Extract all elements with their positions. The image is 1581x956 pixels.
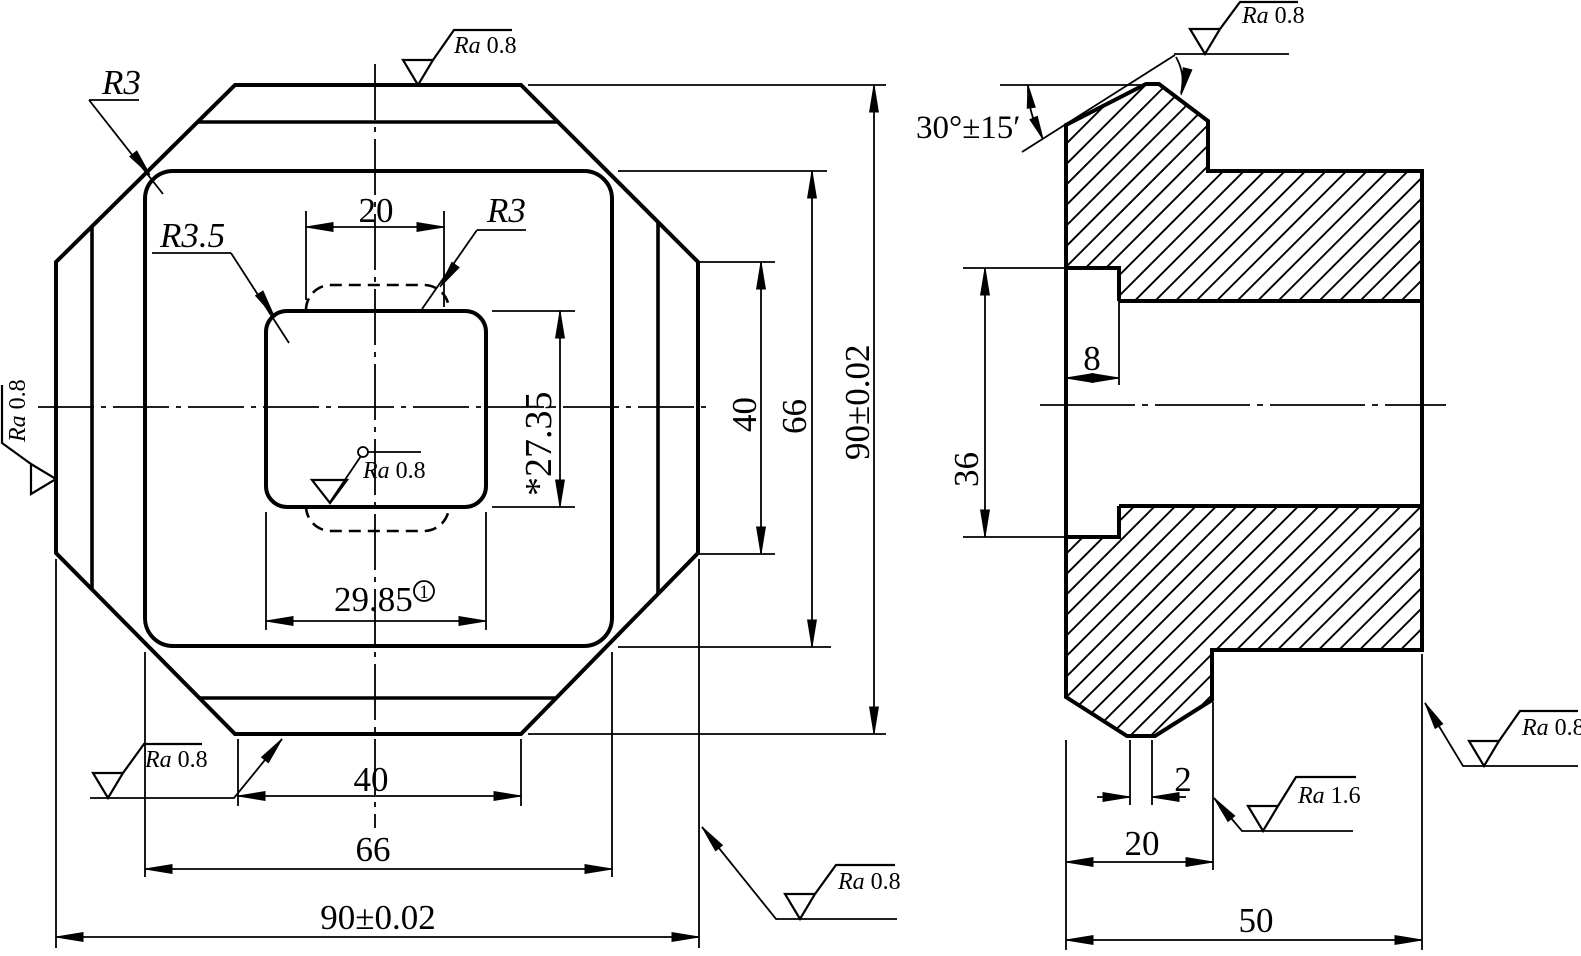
svg-text:29.85: 29.85 [334,580,413,619]
svg-text:30°±15′: 30°±15′ [916,110,1021,146]
svg-text:R3: R3 [486,191,526,230]
svg-text:R3.5: R3.5 [159,216,225,255]
svg-text:40: 40 [354,760,389,799]
svg-text:*27.35: *27.35 [518,392,560,497]
svg-text:Ra 0.8: Ra 0.8 [5,379,31,443]
svg-text:Ra 0.8: Ra 0.8 [362,458,426,484]
svg-text:20: 20 [1125,824,1160,863]
svg-text:20: 20 [359,191,394,230]
svg-text:40: 40 [725,397,764,432]
svg-text:36: 36 [947,452,986,487]
svg-text:8: 8 [1083,339,1101,378]
svg-text:2: 2 [1174,760,1192,799]
svg-text:R3: R3 [101,63,141,102]
svg-text:Ra 0.8: Ra 0.8 [837,869,901,895]
svg-text:Ra 0.8: Ra 0.8 [1521,715,1581,741]
svg-text:1: 1 [419,582,429,603]
svg-text:66: 66 [775,399,814,434]
svg-text:Ra 0.8: Ra 0.8 [144,747,208,773]
svg-text:90±0.02: 90±0.02 [838,345,877,460]
svg-text:Ra 0.8: Ra 0.8 [453,33,517,59]
svg-text:90±0.02: 90±0.02 [320,898,435,937]
svg-text:66: 66 [356,830,391,869]
svg-text:Ra 1.6: Ra 1.6 [1297,783,1361,809]
svg-text:Ra 0.8: Ra 0.8 [1241,3,1305,29]
svg-text:50: 50 [1239,901,1274,940]
